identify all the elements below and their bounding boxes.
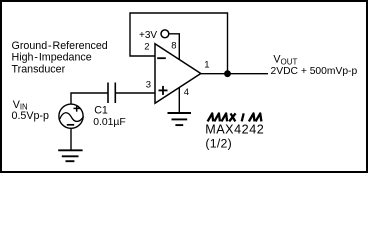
title text: Ground-Referenced High-Impedance Transducer xyxy=(12,40,108,75)
svg-text:Transducer: Transducer xyxy=(12,63,66,75)
svg-text:MAX4242: MAX4242 xyxy=(205,123,264,137)
wire C1 to pin 3 xyxy=(116,92,155,94)
svg-text:0.01µF: 0.01µF xyxy=(93,117,126,128)
feedback wire: node to pin 2 xyxy=(130,13,228,74)
wire source top to C1 xyxy=(71,93,108,104)
capacitor C1 xyxy=(108,83,115,104)
label C1 0.01uF xyxy=(93,104,126,128)
border frame xyxy=(1,1,367,172)
output wire xyxy=(201,73,268,75)
MAXIM logo xyxy=(208,113,262,121)
+3V terminal circle xyxy=(161,30,169,38)
junction node dot xyxy=(224,70,231,77)
svg-text:8: 8 xyxy=(171,41,176,52)
svg-text:3: 3 xyxy=(146,80,151,91)
op-amp U1 triangle xyxy=(155,44,201,103)
ground (source) xyxy=(58,150,82,161)
svg-text:C1: C1 xyxy=(94,104,108,116)
wire pin 4 to ground xyxy=(178,88,180,113)
AC source VIN xyxy=(59,104,84,128)
svg-text:High - Impedance: High - Impedance xyxy=(12,52,92,64)
wire +3V to pin 8 xyxy=(169,34,179,60)
svg-text:+3V: +3V xyxy=(139,30,157,41)
wire source bottom to ground xyxy=(70,129,72,150)
svg-text:2VDC + 500mVp-p: 2VDC + 500mVp-p xyxy=(271,66,358,77)
svg-text:Ground - Referenced: Ground - Referenced xyxy=(12,40,108,52)
svg-text:4: 4 xyxy=(184,87,189,98)
svg-text:2: 2 xyxy=(144,42,149,53)
ground (pin 4) xyxy=(168,113,192,125)
label VIN 0.5Vp-p xyxy=(12,99,49,122)
op-amp plus input mark xyxy=(159,86,168,95)
op-amp minus input mark xyxy=(157,57,166,59)
svg-text:1: 1 xyxy=(204,60,209,71)
svg-text:(1/2): (1/2) xyxy=(205,137,232,151)
svg-text:0.5Vp-p: 0.5Vp-p xyxy=(12,110,49,122)
